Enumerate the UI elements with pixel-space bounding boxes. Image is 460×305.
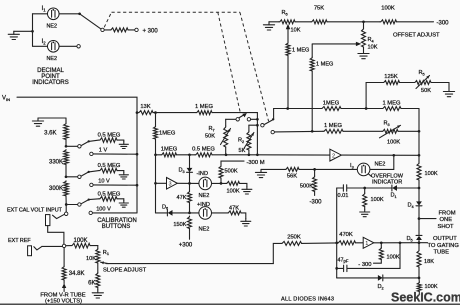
resistor 0.5 MEG [99, 168, 117, 173]
resistor 1MEG vertical on bus [155, 113, 157, 126]
diode D1 [392, 185, 397, 191]
resistor 100K (amp1 out) [380, 243, 382, 248]
node 10 V [90, 183, 93, 186]
potentiometer R7 50K [225, 119, 227, 126]
mechanical linkage (dashed) [104, 12, 111, 27]
svg-text:100K: 100K [227, 188, 240, 194]
resistor to +300 [104, 29, 110, 31]
ext cal volt input [65, 205, 67, 213]
lamp +IND NE2 [199, 207, 212, 220]
capacitor 47pF [336, 188, 338, 278]
svg-text:47K: 47K [229, 206, 239, 212]
svg-text:ALL DIODES IN643: ALL DIODES IN643 [281, 296, 334, 302]
ground [448, 83, 450, 89]
svg-text:10K: 10K [291, 27, 301, 33]
ground [123, 140, 125, 142]
svg-text:-300: -300 [309, 200, 322, 206]
from V-R tube arrow [63, 280, 65, 284]
svg-text:-300: -300 [437, 20, 450, 26]
svg-text:47K: 47K [177, 195, 187, 201]
node 1 V [90, 152, 93, 155]
potentiometer R3 100K [382, 129, 398, 133]
svg-text:0.5 MEG: 0.5 MEG [192, 146, 215, 152]
svg-text:+IND: +IND [197, 202, 210, 208]
svg-text:OFFSET ADJUST: OFFSET ADJUST [393, 33, 440, 39]
resistor 150K to +300 [188, 216, 192, 229]
resistor 1 MEG row1b [382, 107, 401, 111]
svg-text:3.6K: 3.6K [44, 130, 56, 136]
resistor 0.5 MEG [99, 197, 117, 202]
svg-text:1 MEG: 1 MEG [292, 47, 309, 53]
svg-text:100K: 100K [73, 238, 87, 244]
svg-text:TO GATING: TO GATING [428, 243, 460, 249]
svg-text:SeekIC.com: SeekIC.com [391, 290, 460, 304]
capacitor 0.01 [337, 187, 343, 189]
svg-text:EXT REF: EXT REF [8, 238, 31, 244]
wire row2 [274, 130, 323, 133]
svg-text:3: 3 [169, 182, 172, 188]
resistor 47K to ground [212, 212, 228, 214]
svg-text:0.5 MEG: 0.5 MEG [98, 191, 121, 197]
wire jack to ref node [48, 226, 64, 245]
svg-text:10K: 10K [368, 45, 378, 51]
diode D6 [156, 212, 168, 214]
svg-text:75K: 75K [314, 5, 324, 11]
resistor 13K [138, 111, 153, 115]
wire row1 [274, 108, 321, 110]
switch arm [53, 214, 65, 218]
svg-text:500K: 500K [225, 169, 238, 175]
svg-text:1 MEG: 1 MEG [324, 123, 343, 129]
svg-text:NE2: NE2 [47, 24, 58, 30]
resistor 47K vertical [189, 183, 191, 191]
svg-text:NE2: NE2 [47, 56, 58, 62]
svg-text:1 MEG: 1 MEG [316, 61, 333, 67]
svg-text:1: 1 [365, 241, 368, 247]
svg-text:34.8K: 34.8K [69, 271, 85, 277]
svg-text:INDICATORS: INDICATORS [32, 80, 68, 86]
svg-text:- 300: - 300 [358, 262, 371, 268]
wire [32, 14, 34, 47]
node 100 V [89, 211, 92, 214]
contact node [62, 244, 65, 247]
svg-text:100K: 100K [425, 171, 438, 177]
svg-text:0.01: 0.01 [338, 193, 349, 199]
bottom scan edge [0, 303, 460, 305]
wire right bus [418, 109, 420, 163]
switch arm [34, 246, 42, 250]
wire slope line up to 250K [273, 243, 281, 263]
svg-text:0.5 MEG: 0.5 MEG [98, 133, 121, 139]
resistor 300K [64, 181, 69, 196]
svg-text:100K: 100K [381, 5, 395, 11]
resistor 250K [281, 241, 302, 245]
jack EXT CAL [46, 215, 50, 226]
svg-text:ONE: ONE [440, 217, 453, 223]
wire + resistor 1 MEG from R6 down [286, 43, 290, 56]
svg-text:NE2: NE2 [199, 193, 210, 199]
svg-text:1 MEG: 1 MEG [382, 100, 401, 106]
svg-text:INDICATOR: INDICATOR [372, 180, 402, 186]
resistor 18K [418, 243, 420, 250]
resistor 470K [338, 241, 356, 245]
wire [33, 13, 48, 15]
calibration switch 100V [66, 204, 78, 206]
svg-text:NE2: NE2 [199, 227, 210, 233]
svg-text:1 MEG: 1 MEG [195, 104, 214, 110]
svg-text:OUTPUT: OUTPUT [433, 236, 457, 242]
svg-text:FROM: FROM [439, 210, 456, 216]
potentiometer R5 50K [414, 81, 431, 85]
svg-text:0.5 MEG: 0.5 MEG [98, 163, 121, 169]
svg-text:300K: 300K [49, 186, 63, 192]
resistor 330K [64, 150, 69, 165]
wire down to 34.8K [63, 248, 65, 266]
svg-text:TUBE: TUBE [434, 250, 450, 256]
wire row to amp2 [257, 154, 330, 156]
svg-text:-IND: -IND [197, 171, 209, 177]
resistor 500K to -300 [313, 176, 317, 192]
svg-text:-300 M: -300 M [247, 160, 265, 166]
svg-text:10 V: 10 V [98, 178, 110, 184]
svg-text:100K: 100K [387, 139, 400, 145]
svg-text:125K: 125K [384, 74, 398, 80]
svg-text:18K: 18K [424, 259, 434, 265]
wiper arrow + slope wire [101, 262, 108, 263]
svg-text:+ 300: + 300 [143, 28, 159, 34]
svg-text:NE2: NE2 [375, 162, 386, 168]
svg-text:150K: 150K [173, 222, 186, 228]
ground [123, 199, 125, 201]
resistor 100K [66, 245, 71, 247]
ground [268, 22, 270, 25]
svg-text:2: 2 [332, 153, 335, 159]
svg-text:VIN: VIN [2, 96, 10, 102]
jack EXT REF [28, 246, 32, 256]
resistor 1MEG (R4 wiper) [310, 57, 314, 71]
resistor 100K bus [417, 163, 421, 181]
wire amp2 out [341, 154, 419, 156]
wire Vin bus [17, 97, 137, 213]
svg-text:100K: 100K [425, 284, 438, 290]
potentiometer R4 10K [363, 22, 365, 28]
potentiometer R6 10K [279, 20, 295, 24]
ground [14, 30, 33, 32]
switch arm with arrow [239, 115, 244, 118]
op-amp 2 (overflow) [330, 149, 342, 161]
svg-text:SLOPE ADJUST: SLOPE ADJUST [103, 267, 147, 273]
svg-text:56K: 56K [287, 174, 297, 180]
wiper wire to 1MEG [312, 43, 356, 45]
svg-text:10K: 10K [86, 256, 96, 262]
calibration switch 10V [66, 176, 78, 178]
contact [101, 28, 104, 31]
op-amp 1 [363, 237, 374, 248]
svg-text:470K: 470K [339, 232, 353, 238]
lamp -IND NE2 [199, 177, 212, 190]
resistor 0.5 MEG row [190, 154, 196, 156]
potentiometer R1 10K slope adjust [97, 246, 99, 249]
op-amp 3 [156, 182, 167, 184]
svg-text:13K: 13K [140, 104, 150, 110]
diode D4 [416, 201, 422, 205]
lamp I2 NE2 [33, 45, 48, 47]
resistor 500K to -300M [212, 182, 227, 184]
svg-text:100 V: 100 V [96, 206, 111, 212]
resistor 1MEG row1a [321, 107, 341, 111]
ground [38, 117, 66, 119]
resistor 3.6K [65, 118, 67, 123]
diode D2 [337, 277, 378, 279]
diode D3 [189, 155, 191, 168]
svg-text:100K: 100K [371, 197, 384, 203]
diode D5 [418, 219, 420, 236]
potentiometer R2 5K [249, 124, 258, 126]
resistor 100K to ground [226, 181, 240, 185]
svg-text:500K: 500K [300, 183, 313, 189]
svg-text:SHOT: SHOT [438, 224, 455, 230]
resistor 6K [97, 263, 99, 273]
calibration switch 1V [66, 145, 78, 147]
svg-text:+300: +300 [179, 243, 193, 249]
resistor 75K [295, 21, 311, 23]
switch arm (decimal point selector) [80, 14, 101, 29]
svg-text:1MEG: 1MEG [161, 146, 178, 152]
svg-text:1MEG: 1MEG [159, 131, 176, 137]
svg-text:5K: 5K [239, 148, 246, 154]
resistor 100K offset [380, 20, 397, 24]
svg-text:50K: 50K [421, 88, 431, 94]
svg-text:BUTTONS: BUTTONS [102, 224, 131, 230]
svg-text:EXT CAL VOLT INPUT: EXT CAL VOLT INPUT [7, 207, 63, 213]
node output to gating tube [418, 241, 421, 244]
wire [59, 45, 77, 47]
svg-text:1MEG: 1MEG [323, 100, 340, 106]
resistor 100K bottom [417, 282, 421, 292]
svg-text:1 V: 1 V [99, 147, 108, 153]
switch contact + arm to row1 [261, 124, 264, 127]
resistor 0.5 MEG [99, 138, 117, 143]
resistor 1MEG row [156, 154, 162, 156]
ground [97, 288, 99, 290]
svg-text:50K: 50K [205, 133, 215, 139]
ground [123, 171, 125, 173]
svg-text:330K: 330K [49, 159, 63, 165]
svg-text:6K: 6K [88, 280, 95, 286]
lamp I3 NE2 overflow indicator [260, 169, 262, 172]
contact row2 [271, 130, 274, 133]
svg-text:(+150 VOLTS): (+150 VOLTS) [45, 298, 82, 304]
svg-text:47pF: 47pF [338, 257, 349, 263]
lamp I1 NE2 [48, 8, 60, 20]
resistor 1 MEG row2 [323, 129, 343, 133]
svg-text:250K: 250K [287, 235, 301, 241]
wire [59, 13, 80, 15]
resistor 34.8K [62, 266, 66, 280]
resistor 1 MEG (to range switch) [156, 112, 197, 114]
resistor 125K [366, 82, 383, 84]
switch contacts [226, 118, 236, 120]
wire range switch vertical [256, 113, 258, 155]
node from one shot [418, 217, 421, 220]
node: lamp bus junction [31, 30, 34, 33]
resistor 100K to ground [364, 188, 366, 193]
svg-text:100K: 100K [387, 254, 400, 260]
